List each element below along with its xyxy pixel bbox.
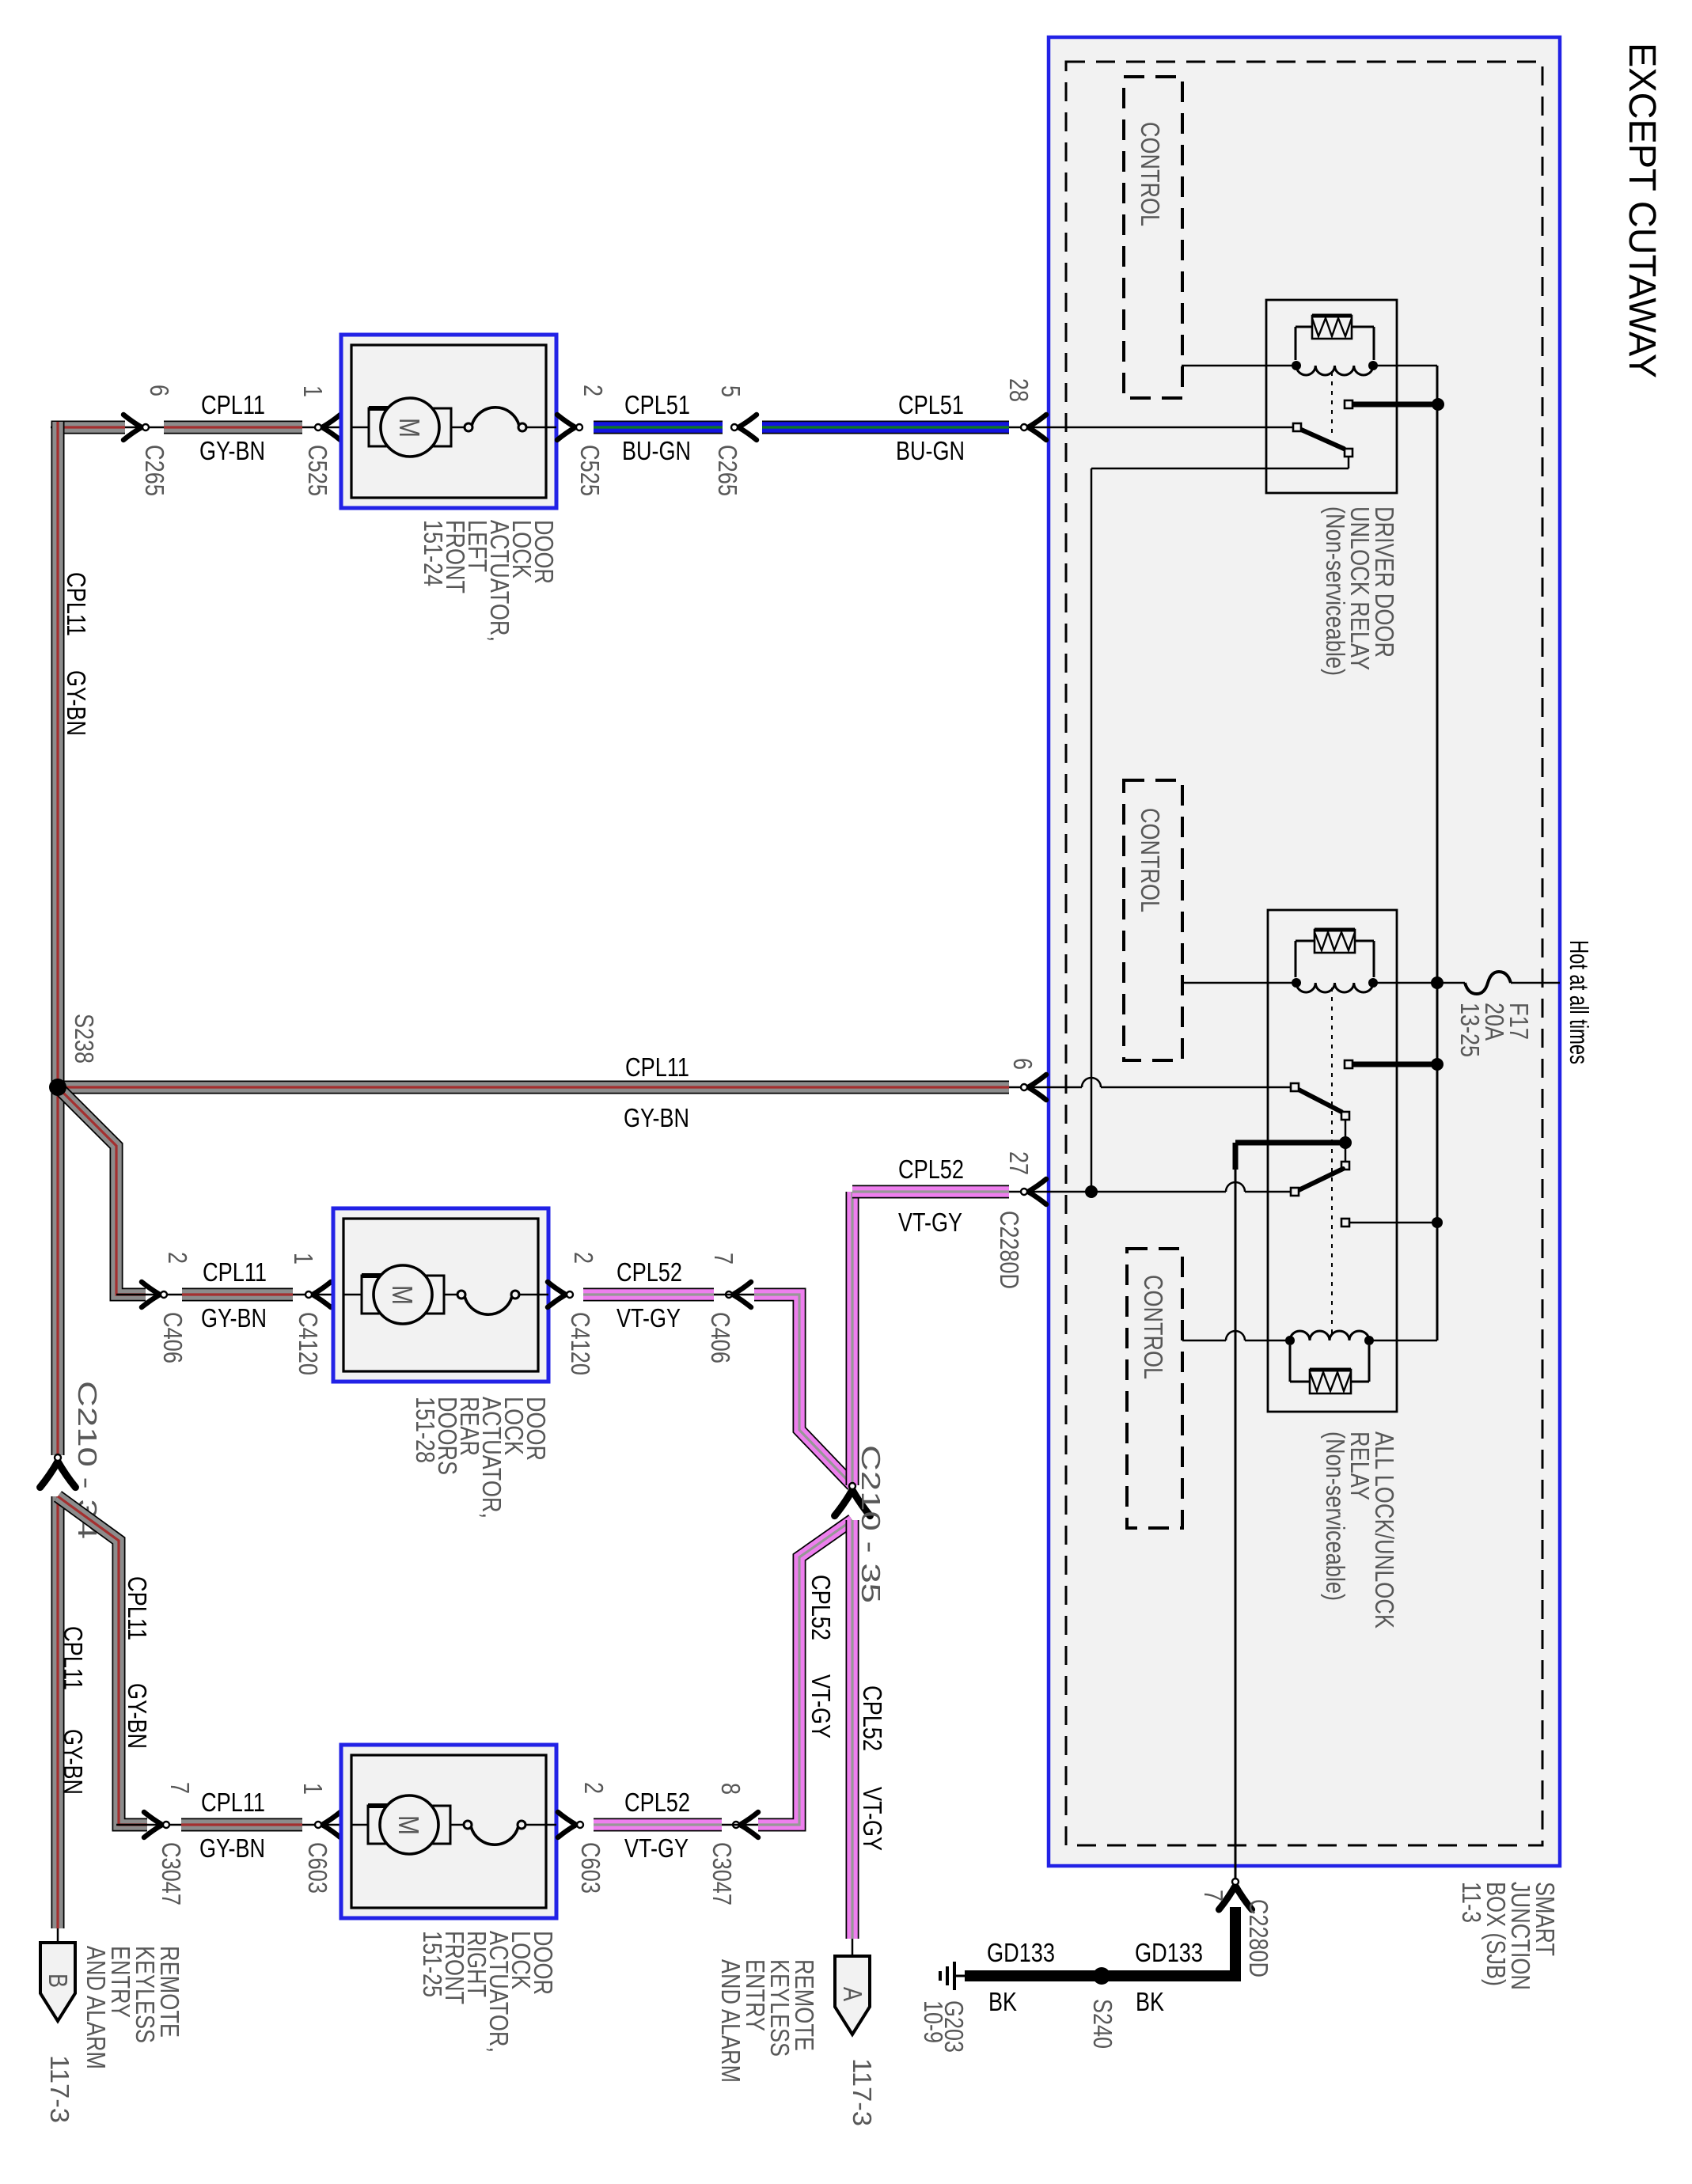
relay1 coil resistor [1312, 316, 1352, 339]
relay2 lower NO contact terminal [1341, 1219, 1349, 1227]
svg-text:CPL11: CPL11 [203, 1257, 267, 1287]
svg-text:151-24: 151-24 [419, 520, 448, 586]
wire pin6 to relay2 armature [1101, 1086, 1291, 1089]
relay2 top coil resistor heavy edge [1315, 928, 1355, 932]
relay2 upper NO feed thick [1353, 1062, 1435, 1067]
door lock actuator left front motor bracket [369, 408, 451, 446]
connector C4120 pin 2 arrow [548, 1282, 566, 1307]
svg-text:M: M [393, 1815, 425, 1835]
ground G203 symbol [940, 1962, 954, 1990]
door lock actuator rear doors internal wire [343, 1294, 461, 1296]
svg-text:28: 28 [1004, 378, 1034, 402]
door lock actuator rear doors internal wire right [518, 1294, 548, 1296]
relay2 bottom resistor drop right [1368, 1345, 1371, 1382]
svg-text:VT-GY: VT-GY [858, 1787, 887, 1851]
svg-text:M: M [386, 1285, 419, 1305]
door lock actuator rear doors motor bracket [362, 1276, 444, 1314]
relay1 armature [1299, 429, 1344, 449]
control box 1 dashed [1124, 77, 1182, 398]
svg-text:CONTROL: CONTROL [1136, 808, 1165, 912]
relay2 bottom resistor wire right [1351, 1381, 1369, 1383]
svg-text:Hot at all times: Hot at all times [1565, 940, 1594, 1064]
svg-text:(Non-serviceable): (Non-serviceable) [1321, 1431, 1350, 1601]
relay1 NC contact link [1348, 457, 1350, 468]
control box 2 dashed [1124, 780, 1182, 1060]
svg-text:C4120: C4120 [294, 1312, 323, 1375]
svg-text:8: 8 [716, 1783, 745, 1795]
door lock actuator right front motor circle [380, 1795, 438, 1854]
relay2 top coil terminal left [1292, 978, 1301, 988]
svg-text:7: 7 [165, 1782, 195, 1794]
svg-text:5: 5 [716, 385, 745, 397]
svg-text:7: 7 [1199, 1890, 1228, 1902]
svg-text:1: 1 [289, 1253, 318, 1265]
svg-text:GY-BN: GY-BN [199, 1833, 265, 1863]
wire CPL11 GY-BN chain2 segment [182, 1288, 293, 1302]
door lock actuator right front switch contact left [464, 1821, 472, 1829]
door lock actuator right front internal wire right [525, 1824, 556, 1826]
svg-text:CPL52: CPL52 [898, 1155, 964, 1184]
svg-text:6: 6 [145, 385, 174, 396]
relay2 top coil resistor zigzag [1315, 932, 1355, 950]
svg-text:2: 2 [569, 1252, 598, 1264]
svg-text:C4120: C4120 [566, 1312, 595, 1375]
wire chain1 left thin [51, 427, 343, 429]
door lock actuator left front internal wire right [525, 427, 556, 429]
svg-text:C265: C265 [713, 445, 742, 496]
door lock actuator rear doors switch contact right [511, 1291, 519, 1299]
svg-text:117-3: 117-3 [848, 2058, 877, 2126]
door lock actuator rear doors switch arc [465, 1296, 512, 1314]
relay2 upper NC link [1345, 1120, 1347, 1138]
relay2 top coil terminal right [1368, 978, 1378, 988]
door lock actuator rear doors motor circle [374, 1265, 432, 1324]
coil wire hop over ground line [1226, 1331, 1245, 1340]
splice S240 [1093, 1967, 1110, 1985]
svg-text:B: B [44, 1974, 73, 1988]
svg-text:CPL11: CPL11 [201, 1788, 265, 1817]
relay1 NC contact terminal [1345, 449, 1352, 457]
relay2 top coil wire from control [1182, 982, 1296, 984]
junction relay2 lower NO / B+ rail [1432, 1217, 1443, 1228]
relay1 coil terminal right [1368, 361, 1378, 370]
relay2 bottom resistor wire left [1290, 1381, 1310, 1383]
splice S238 junction dot [49, 1079, 66, 1096]
relay1 output vertical to pin27 node [1091, 468, 1093, 1192]
door lock actuator rear doors switch contact left [457, 1291, 465, 1299]
wire CPL51 BU-GN segment 1 [594, 421, 723, 434]
svg-text:C2280D: C2280D [1244, 1899, 1273, 1977]
relay2 lower armature [1299, 1169, 1343, 1190]
wire CPL52 VT-GY chain3 segment [594, 1818, 722, 1832]
door lock actuator right front switch arc [471, 1826, 518, 1845]
relay1 resistor drop right [1373, 327, 1375, 360]
svg-text:C603: C603 [576, 1842, 605, 1894]
ground line vertical to pin 7 [1235, 1170, 1237, 1886]
svg-text:BU-GN: BU-GN [622, 436, 691, 465]
svg-text:CONTROL: CONTROL [1136, 122, 1165, 226]
connector C603 pin 1 arrow [322, 1812, 340, 1837]
wire CPL52 VT-GY to SJB pin 27 [852, 1185, 1009, 1199]
svg-text:2: 2 [163, 1252, 192, 1264]
junction relay1 feed / B+ rail [1432, 398, 1444, 411]
relay1 coil terminal left [1292, 361, 1301, 370]
connector C265 pin 6 arrow [123, 415, 142, 440]
all lock/unlock relay box [1268, 910, 1397, 1412]
svg-text:C525: C525 [303, 445, 332, 496]
svg-text:GD133: GD133 [1135, 1938, 1203, 1967]
wire CPL11 GY-BN segment [164, 421, 302, 434]
svg-text:13-25: 13-25 [1455, 1003, 1485, 1057]
relay2 linkage dashed [1331, 988, 1333, 1336]
door lock actuator left front switch contact left [465, 423, 472, 431]
svg-text:CPL11: CPL11 [201, 390, 265, 419]
svg-text:6: 6 [1008, 1058, 1038, 1070]
relay1 coil resistor heavy edge [1312, 314, 1352, 318]
wire CPL11 branch to rear doors actuator [58, 1087, 146, 1295]
relay2 upper armature [1297, 1089, 1341, 1112]
wire chain2 thin right [714, 1294, 760, 1296]
svg-text:C406: C406 [158, 1312, 188, 1363]
relay2 bottom coil wire from control [1182, 1340, 1226, 1342]
relay2 lower NC contact terminal [1341, 1162, 1349, 1170]
relay1 resistor wire left [1296, 326, 1312, 328]
connector C210-34 arrow [40, 1462, 76, 1488]
relay2 ground feed thick [1235, 1140, 1345, 1146]
relay1 resistor drop left [1295, 327, 1297, 360]
driver door unlock relay box [1266, 300, 1397, 493]
svg-text:CPL11: CPL11 [62, 572, 91, 636]
smart junction box SJB outer box [1049, 37, 1560, 1866]
relay2 top coil resistor [1315, 930, 1355, 953]
off-page connector B [40, 1943, 75, 2021]
relay2 lower NC link [1345, 1147, 1347, 1162]
svg-text:1: 1 [298, 1783, 328, 1795]
relay2 upper NO contact terminal [1345, 1060, 1352, 1068]
wire CPL11 corner top-left [58, 427, 125, 475]
svg-text:C406: C406 [706, 1312, 735, 1363]
relay1 coil resistor zigzag [1312, 318, 1352, 336]
svg-text:2: 2 [579, 1782, 609, 1794]
fuse F17 20A [1465, 972, 1511, 994]
svg-text:GD133: GD133 [987, 1938, 1055, 1967]
connector C210-35 arrow [835, 1490, 871, 1516]
SJB pin 7 arrow [1219, 1886, 1252, 1909]
svg-text:CPL51: CPL51 [898, 390, 964, 419]
relay2 upper NC contact terminal [1341, 1112, 1349, 1120]
relay1 linkage dashed [1331, 372, 1333, 434]
door lock actuator right front outer box [341, 1745, 556, 1918]
svg-text:CPL11: CPL11 [625, 1052, 689, 1082]
svg-text:C210 - 35: C210 - 35 [856, 1445, 886, 1603]
wire pin 28 into relay 1 [1009, 427, 1293, 429]
B+ rail vertical [1436, 366, 1439, 1340]
svg-text:GY-BN: GY-BN [62, 670, 91, 736]
door lock actuator right front motor bracket [368, 1806, 450, 1844]
relay2 bottom coil wire 2 [1245, 1340, 1290, 1342]
ground line thick stub [1233, 1143, 1239, 1170]
svg-text:27: 27 [1004, 1151, 1034, 1175]
svg-text:GY-BN: GY-BN [123, 1683, 152, 1749]
door lock actuator left front switch contact right [518, 423, 526, 431]
svg-text:117-3: 117-3 [45, 2055, 74, 2123]
svg-text:A: A [838, 1987, 867, 2001]
wire pin6 thin [1009, 1086, 1082, 1089]
svg-text:S240: S240 [1088, 1999, 1117, 2049]
svg-text:C2280D: C2280D [995, 1211, 1024, 1289]
svg-text:BU-GN: BU-GN [896, 436, 965, 465]
relay2 bottom resistor drop left [1289, 1345, 1292, 1382]
svg-text:GY-BN: GY-BN [199, 436, 265, 465]
wire CPL52 vertical from pin 27 [846, 1192, 859, 1485]
svg-text:1: 1 [298, 385, 328, 397]
wire to connector B [57, 1928, 59, 1945]
svg-text:AND ALARM: AND ALARM [82, 1946, 111, 2069]
svg-text:BK: BK [1136, 1987, 1164, 2016]
wire CPL11 GY-BN long run to SJB pin6 [58, 1081, 1009, 1094]
connector C603 pin 2 arrow [558, 1812, 576, 1837]
svg-text:GY-BN: GY-BN [59, 1729, 88, 1795]
door lock actuator left front outer box [341, 335, 556, 508]
relay2 bottom coil [1290, 1331, 1369, 1340]
wire CPL52 riser from chain2 to C210-35 [754, 1295, 852, 1485]
ground stub [954, 1975, 965, 1977]
svg-text:CPL52: CPL52 [806, 1575, 836, 1640]
relay2 lower NO wire [1350, 1222, 1435, 1224]
relay2 lower armature pivot [1291, 1188, 1299, 1196]
wire CPL51 BU-GN segment 2 [762, 421, 1009, 434]
svg-text:C265: C265 [140, 445, 169, 496]
relay2 bottom coil resistor zigzag [1310, 1372, 1351, 1391]
svg-text:2: 2 [579, 385, 608, 396]
svg-text:11-3: 11-3 [1457, 1882, 1486, 1923]
relay2 upper armature pivot [1291, 1083, 1299, 1091]
SJB pin 6 arrow [1028, 1075, 1046, 1100]
connector C3047 pin 7 arrow [144, 1812, 162, 1837]
wire CPL52 riser from C210-35 to chain3 [758, 1520, 852, 1825]
SJB inner dashed border [1066, 62, 1542, 1845]
wire pin27 to relay2 lower armature [1245, 1191, 1291, 1193]
relay2 bottom coil terminal left [1285, 1336, 1295, 1345]
SJB pin 28 arrow [1028, 415, 1046, 440]
svg-text:VT-GY: VT-GY [624, 1833, 689, 1863]
door lock actuator left front motor bracket terminal [369, 406, 412, 411]
svg-text:CPL52: CPL52 [624, 1788, 690, 1817]
svg-text:M: M [393, 418, 426, 438]
junction B+ rail / fuse [1431, 976, 1444, 989]
svg-text:CPL52: CPL52 [616, 1257, 682, 1287]
svg-text:BK: BK [988, 1987, 1017, 2016]
wire pin27 to relay2 [1091, 1191, 1226, 1193]
connector C265 pin 5 arrow [738, 415, 757, 440]
door lock actuator left front switch arc [472, 408, 519, 426]
control box 3 dashed [1127, 1249, 1182, 1528]
relay2 top resistor drop left [1295, 941, 1297, 977]
svg-text:EXCEPT CUTAWAY: EXCEPT CUTAWAY [1621, 43, 1663, 378]
off-page connector A [835, 1956, 870, 2034]
door lock actuator right front inner box [351, 1755, 546, 1908]
svg-text:(Non-serviceable): (Non-serviceable) [1321, 506, 1350, 676]
door lock actuator left front inner box [351, 345, 546, 498]
wire CPL11 branch to right front actuator [58, 1496, 147, 1825]
pin27 wire hop over ground line [1226, 1182, 1245, 1192]
junction relay2 upper NO / B+ rail [1431, 1058, 1444, 1071]
svg-text:AND ALARM: AND ALARM [716, 1959, 745, 2083]
wire chain3 thin left [116, 1824, 343, 1826]
door lock actuator left front motor circle [381, 398, 439, 457]
relay2 top resistor drop right [1373, 941, 1375, 977]
svg-text:10-9: 10-9 [919, 2000, 948, 2043]
door lock actuator rear doors inner box [343, 1219, 538, 1371]
svg-text:VT-GY: VT-GY [616, 1303, 681, 1333]
junction relay1 output / pin27 [1085, 1185, 1098, 1198]
connector C525 pin 1 arrow [322, 415, 340, 440]
relay1 coil wire from control [1182, 365, 1296, 367]
svg-text:C603: C603 [303, 1842, 332, 1894]
door lock actuator right front switch contact right [518, 1821, 525, 1829]
relay1 coil [1296, 366, 1373, 375]
wire CPL52 vertical to connector A [846, 1520, 859, 1939]
wire CPL11 vertical upper [51, 422, 65, 1455]
relay2 bottom coil wire to B+ rail [1369, 1340, 1437, 1342]
relay1 output wire [1091, 468, 1349, 470]
wire to connector A [852, 1939, 854, 1958]
wire CPL52 VT-GY chain2 segment [583, 1288, 714, 1302]
wire fuse to Hot at all times [1511, 982, 1560, 984]
svg-text:VT-GY: VT-GY [806, 1674, 836, 1738]
svg-text:7: 7 [709, 1253, 738, 1265]
wire chain2 thin left [116, 1294, 335, 1296]
wire pin27 thin [1009, 1191, 1090, 1193]
door lock actuator right front internal wire [351, 1824, 468, 1826]
wire chain3 thin right [722, 1824, 764, 1826]
relay1 coil wire to B+ rail [1373, 365, 1437, 367]
relay2 bottom coil resistor [1310, 1370, 1351, 1393]
svg-text:S238: S238 [70, 1014, 99, 1064]
wire GD133 BK riser [965, 1907, 1235, 1976]
wire CPL11 vertical lower [51, 1496, 65, 1928]
relay2 bottom coil resistor heavy edge [1310, 1368, 1351, 1372]
relay2 bottom coil terminal right [1364, 1336, 1374, 1345]
svg-text:CPL11: CPL11 [123, 1576, 152, 1640]
door lock actuator left front internal wire [351, 427, 469, 429]
connector C406 pin 2 arrow [142, 1282, 160, 1307]
connector C4120 pin 1 arrow [313, 1282, 331, 1307]
wire CPL11 GY-BN chain3 segment [181, 1818, 302, 1832]
pin6 wire hop over relay1 output [1082, 1078, 1101, 1087]
connector C406 pin 7 arrow [733, 1282, 751, 1307]
fuse feed wire [1373, 982, 1465, 984]
connector C3047 pin 8 arrow [740, 1812, 758, 1837]
svg-text:C3047: C3047 [708, 1842, 737, 1905]
relay2 top resistor wire left [1296, 940, 1315, 942]
connector C525 pin 2 arrow [557, 415, 575, 440]
svg-text:151-25: 151-25 [418, 1931, 447, 1997]
door lock actuator rear doors outer box [333, 1208, 548, 1382]
svg-text:C525: C525 [575, 445, 605, 496]
svg-text:CPL51: CPL51 [624, 390, 690, 419]
relay1 armature pivot [1293, 423, 1301, 431]
relay2 top coil [1296, 983, 1373, 992]
svg-text:151-28: 151-28 [411, 1397, 440, 1463]
relay2 top resistor wire right [1355, 940, 1374, 942]
door lock actuator right front motor bracket terminal [368, 1803, 411, 1808]
svg-text:VT-GY: VT-GY [898, 1208, 962, 1237]
SJB pin 27 arrow [1028, 1179, 1046, 1204]
svg-text:CPL52: CPL52 [858, 1685, 887, 1751]
junction relay2 common ground node [1339, 1136, 1352, 1149]
svg-text:CPL11: CPL11 [59, 1626, 88, 1690]
door lock actuator rear doors motor bracket terminal [362, 1273, 404, 1278]
relay1 NO contact feed thick [1353, 402, 1437, 408]
relay1 resistor wire right [1352, 326, 1374, 328]
svg-text:C3047: C3047 [157, 1842, 186, 1905]
svg-text:GY-BN: GY-BN [201, 1303, 267, 1333]
svg-text:GY-BN: GY-BN [624, 1103, 689, 1132]
relay1 NO contact terminal [1345, 400, 1352, 408]
svg-text:CONTROL: CONTROL [1139, 1275, 1168, 1379]
